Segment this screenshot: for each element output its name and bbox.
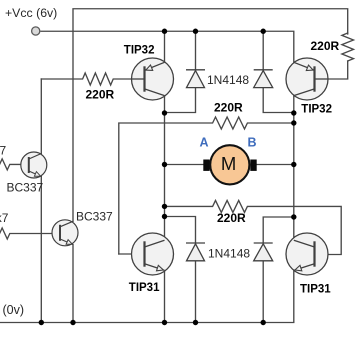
wire BC337 Q6 emitter to ground [72, 245, 74, 323]
wire +Vcc rail [41, 31, 294, 62]
wire from R4 to TIP32 Q2 base [315, 61, 348, 79]
junction node A / R3 [162, 204, 167, 209]
motor M1 [203, 145, 256, 184]
wire diode D3 top lead [165, 217, 196, 244]
resistor R2 220R cross-coupling top [119, 117, 294, 254]
diode D4 1N4148 [254, 243, 273, 261]
svg-text:4k7: 4k7 [0, 211, 9, 225]
svg-text:1N4148: 1N4148 [207, 73, 249, 87]
svg-text:TIP31: TIP31 [300, 283, 331, 295]
junction rail/Q1 emitter [162, 29, 167, 34]
svg-text:220R: 220R [311, 39, 340, 53]
junction node B / motor [291, 162, 296, 167]
transistor Q5 BC337 left-top (NPN) [21, 152, 47, 178]
svg-text:BC337: BC337 [76, 210, 113, 224]
junction node B / D2 [291, 110, 296, 115]
wire node A to motor [165, 164, 204, 166]
wire diode D1 bottom lead to node A column [165, 88, 196, 113]
resistor R5 4k7 input A [0, 159, 29, 170]
wire left output column [164, 113, 166, 240]
svg-text:B: B [248, 136, 257, 150]
transistor Q1 TIP32 top-left (PNP) [132, 58, 174, 100]
junction rail/D1 [193, 29, 198, 34]
wire top feed line from node under BC337 Q6 collector to right resistor [73, 9, 348, 222]
junction ground / Q3 [162, 320, 167, 325]
svg-text:TIP32: TIP32 [301, 103, 332, 115]
svg-text:220R: 220R [217, 211, 246, 225]
wire TIP32 Q1 emitter to rail [164, 31, 166, 62]
junction ground / Q6 [70, 320, 75, 325]
resistor R4 220R vertical right [342, 33, 354, 61]
wire motor to node B [256, 164, 294, 166]
wire diode D1 top lead [195, 31, 197, 70]
junction ground / D3 [193, 320, 198, 325]
diode D2 1N4148 [254, 70, 273, 88]
wire right output column [293, 96, 295, 241]
terminal +Vcc [32, 27, 40, 35]
diode D3 1N4148 [186, 243, 205, 261]
junction node B / D4 [291, 214, 296, 219]
svg-text:M: M [221, 153, 236, 174]
diode D1 1N4148 [186, 70, 205, 88]
svg-text:BC337: BC337 [7, 180, 44, 194]
resistor R3 220R cross-coupling bottom [165, 200, 342, 254]
transistor Q2 TIP32 top-right (PNP, mirrored) [286, 58, 328, 100]
svg-text:A: A [200, 136, 209, 150]
wire TIP32 Q1 collector down to node [164, 96, 166, 113]
wire diode D2 bottom lead to node B column [263, 88, 294, 113]
wire left control line lower (Q5 emitter to ground) [40, 177, 42, 323]
wire diode D3 bottom lead [195, 261, 197, 323]
resistor R1 220R left [41, 73, 144, 85]
svg-text:220R: 220R [86, 88, 115, 102]
junction ground / D4 [261, 320, 266, 325]
junction node A / motor [162, 162, 167, 167]
wire TIP31 Q4 emitter to ground rail corner [0, 271, 294, 323]
svg-text:TIP32: TIP32 [124, 45, 155, 57]
junction node A / D3 [162, 214, 167, 219]
svg-text:1N4148: 1N4148 [208, 247, 250, 261]
transistor Q4 TIP31 bottom-right (NPN, mirrored) [286, 233, 328, 275]
junction node B / R2 [291, 120, 296, 125]
wire TIP31 Q3 base [119, 253, 145, 255]
svg-text:(0v): (0v) [3, 303, 25, 317]
junction ground / Q5 [39, 320, 44, 325]
wire diode D4 bottom lead [262, 261, 264, 323]
transistor Q6 BC337 left-bottom (NPN) [52, 220, 78, 246]
resistor R6 4k7 input B [0, 228, 60, 239]
wire TIP31 Q3 emitter to ground rail [164, 271, 166, 323]
wire diode D2 top lead [262, 31, 264, 70]
svg-text:220R: 220R [214, 100, 243, 114]
junction node A / D1 [162, 110, 167, 115]
transistor Q3 TIP31 bottom-left (NPN) [132, 233, 174, 275]
svg-text:4k7: 4k7 [0, 144, 6, 158]
wire diode D4 top lead [263, 217, 294, 243]
junction rail/D2 [261, 29, 266, 34]
svg-text:+Vcc (6v): +Vcc (6v) [5, 6, 57, 20]
svg-text:TIP31: TIP31 [129, 282, 160, 294]
wire left control line upper (R1 to Q5 collector) [40, 79, 42, 154]
